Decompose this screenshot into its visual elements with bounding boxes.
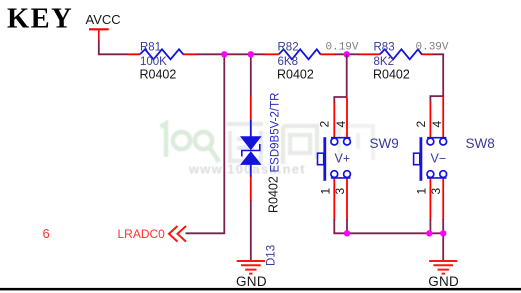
node junction dots on main wire <box>221 51 227 57</box>
svg-text:SW8: SW8 <box>466 136 495 151</box>
svg-text:LRADC0: LRADC0 <box>118 227 166 241</box>
svg-text:3: 3 <box>429 188 443 195</box>
svg-text:R0402: R0402 <box>267 176 281 213</box>
svg-text:R0402: R0402 <box>277 68 314 82</box>
svg-text:D13: D13 <box>266 245 278 266</box>
wire main horizontal middle <box>197 53 265 55</box>
switch SW9 pins (red) <box>334 98 347 221</box>
resistor R83 <box>359 42 433 82</box>
ground GND (left, D13) <box>236 261 267 289</box>
svg-text:SW9: SW9 <box>370 136 399 151</box>
svg-text:6: 6 <box>43 226 50 241</box>
svg-text:3: 3 <box>333 188 347 195</box>
switch SW8 loop wires <box>430 95 443 103</box>
watermark 100ask logo <box>161 124 374 177</box>
svg-text:0.39V: 0.39V <box>416 42 449 54</box>
svg-text:0.19V: 0.19V <box>326 42 359 54</box>
wire diode to GND <box>250 201 252 261</box>
svg-text:R0402: R0402 <box>373 68 410 82</box>
svg-text:8K2: 8K2 <box>374 56 394 68</box>
svg-text:R83: R83 <box>374 42 395 54</box>
svg-text:GND: GND <box>428 274 459 289</box>
resistor R81 <box>127 42 197 82</box>
svg-text:V+: V+ <box>335 151 351 165</box>
svg-text:GND: GND <box>236 274 267 289</box>
wire SW8 pins to bottom net <box>430 219 443 233</box>
wire main horizontal left <box>98 53 127 55</box>
resistor R82 <box>264 42 336 82</box>
svg-text:1: 1 <box>415 188 429 195</box>
wire R83 to SW8 drop <box>433 53 444 97</box>
svg-text:AVCC: AVCC <box>86 12 121 27</box>
wire vertical to diode <box>250 54 252 96</box>
switch SW9 loop wires <box>334 54 347 103</box>
svg-text:R81: R81 <box>140 42 161 54</box>
svg-text:1: 1 <box>319 188 333 195</box>
svg-text:6K8: 6K8 <box>278 56 298 68</box>
switch SW8 pins (red) <box>430 97 443 221</box>
svg-text:ESD9B5V-2/TR: ESD9B5V-2/TR <box>270 93 282 173</box>
svg-text:2: 2 <box>414 121 428 128</box>
TVS diode D13 ESD9B5V-2/TR <box>241 93 282 266</box>
power symbol AVCC <box>86 12 121 41</box>
sheet border bottom <box>0 288 521 291</box>
ground GND (right, switches) <box>428 261 459 289</box>
svg-text:V−: V− <box>431 151 447 165</box>
switch SW8 <box>414 121 495 195</box>
wire bottom net <box>334 232 443 261</box>
switch SW9 <box>317 121 398 195</box>
svg-text:R0402: R0402 <box>140 68 177 82</box>
svg-text:100K: 100K <box>140 56 167 68</box>
node junction dots bottom net <box>344 230 350 236</box>
svg-text:4: 4 <box>430 121 444 128</box>
wire vertical to LRADC0 <box>186 54 226 233</box>
svg-text:4: 4 <box>334 121 348 128</box>
wire SW9 pins to bottom net <box>334 219 347 233</box>
wire AVCC vertical <box>98 41 100 54</box>
svg-text:KEY: KEY <box>7 4 73 35</box>
off-page connector LRADC0 <box>118 226 187 242</box>
svg-text:2: 2 <box>317 121 331 128</box>
wire segment to SW9 junction <box>335 53 360 55</box>
svg-text:R82: R82 <box>278 42 299 54</box>
